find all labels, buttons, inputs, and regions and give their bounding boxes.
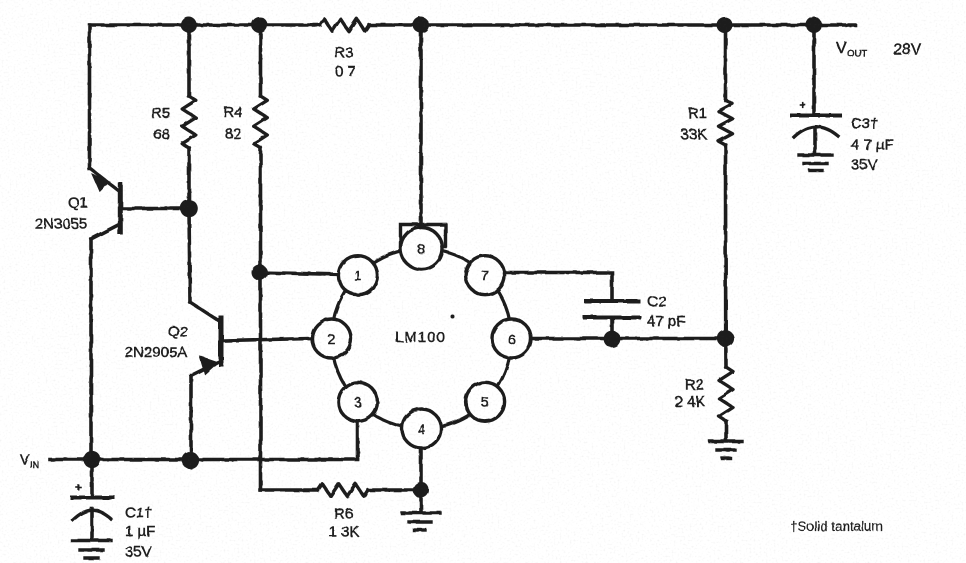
junction node Q1 base [180, 200, 198, 218]
resistor R6 [318, 484, 368, 496]
polarity plus C3 [800, 102, 805, 107]
wire top rail left segment [90, 23, 320, 27]
wire R4 lead down to R6 corner [259, 148, 263, 490]
wire R5 bottom lead to Q1 base node [189, 148, 190, 302]
junction node Vin-Q2 [182, 452, 199, 469]
junction node rail-pin8 [413, 17, 429, 33]
resistor R4 [254, 96, 268, 148]
ground R2 [710, 442, 742, 459]
wire C1 top lead [90, 459, 94, 497]
label Vout [836, 40, 922, 60]
junction node R1-R2-pin6 [717, 330, 734, 347]
resistor R5 [182, 96, 196, 148]
junction node rail-R4 [252, 17, 268, 33]
ground C3 [799, 155, 832, 171]
wire top rail right segment [369, 23, 855, 27]
resistor R3 [320, 19, 369, 31]
wire R6 node to ground [419, 490, 423, 512]
wire R6 left lead [260, 488, 318, 492]
junction node pin1-R4 [252, 265, 268, 281]
pin 5 [466, 382, 505, 421]
label solid tantalum note [790, 519, 883, 534]
label LM100 [395, 329, 446, 346]
wire pin8 stem from rail [419, 25, 423, 226]
pin 2 [312, 319, 351, 358]
wire C3 top lead [812, 26, 816, 114]
label C3 value [851, 116, 894, 174]
junction node rail-R5 [181, 17, 197, 33]
label R5 value [151, 105, 170, 143]
spot mark near LM100 [450, 314, 454, 318]
wire R2 top lead [724, 339, 728, 368]
wire Vin rail [50, 458, 358, 462]
label R3 value [334, 45, 355, 81]
label R6 value [329, 506, 360, 541]
wire pin6 to R1 R2 node [520, 337, 726, 341]
wire R5 top lead [187, 25, 191, 96]
op-amp U1 LM100 ring [332, 249, 512, 429]
ground R6 [402, 513, 440, 530]
wire pin1 to R4 line [259, 273, 345, 275]
transistor Q1 [90, 168, 190, 239]
IC U1 pin8 tab [401, 225, 446, 248]
pin 8 [401, 228, 443, 270]
label Vin [20, 453, 39, 471]
pin numbers [328, 241, 516, 437]
transistor Q2 [190, 302, 313, 376]
wire R2 to ground [724, 421, 728, 441]
label R4 value [223, 104, 242, 143]
resistor R2 [719, 367, 733, 421]
junction node Vin-C1 [83, 451, 100, 468]
pin 6 [492, 319, 531, 358]
ground C1 [72, 541, 111, 559]
junction node C2-pin6 [604, 331, 621, 348]
resistor R1 [719, 100, 733, 145]
label R2 value [675, 377, 706, 411]
capacitor C3 [792, 116, 840, 155]
wire pin3 down to Vin rail [356, 420, 360, 459]
wire R1 top lead [724, 25, 728, 100]
pin 1 [338, 256, 377, 295]
pin 7 [466, 256, 505, 295]
wire R4 top lead [259, 25, 263, 96]
pin 4 [402, 409, 441, 448]
wire R1 bottom lead [724, 145, 728, 339]
junction node rail-R1 [717, 17, 733, 33]
label C2 value [647, 294, 685, 331]
junction node R6-pin4 [413, 482, 429, 498]
label Q1 2N3055 [35, 195, 88, 233]
wire pin7 to C2 [500, 273, 612, 302]
pin 3 [338, 382, 377, 421]
wire pin4 down to R6 node [419, 447, 423, 490]
wire left input riser [88, 25, 92, 169]
junction node rail-C3 [806, 17, 822, 33]
capacitor C2 [585, 301, 639, 340]
wire R6 right lead [368, 488, 421, 492]
label R1 value [680, 105, 707, 143]
label Q2 2N2905A [125, 324, 188, 362]
label C1 value [125, 505, 155, 561]
polarity plus C1 [76, 485, 81, 489]
wire Q1 collector to Vin [89, 239, 93, 459]
wire Q2 emitter to Vin rail [189, 375, 193, 459]
capacitor C1 [72, 498, 113, 541]
